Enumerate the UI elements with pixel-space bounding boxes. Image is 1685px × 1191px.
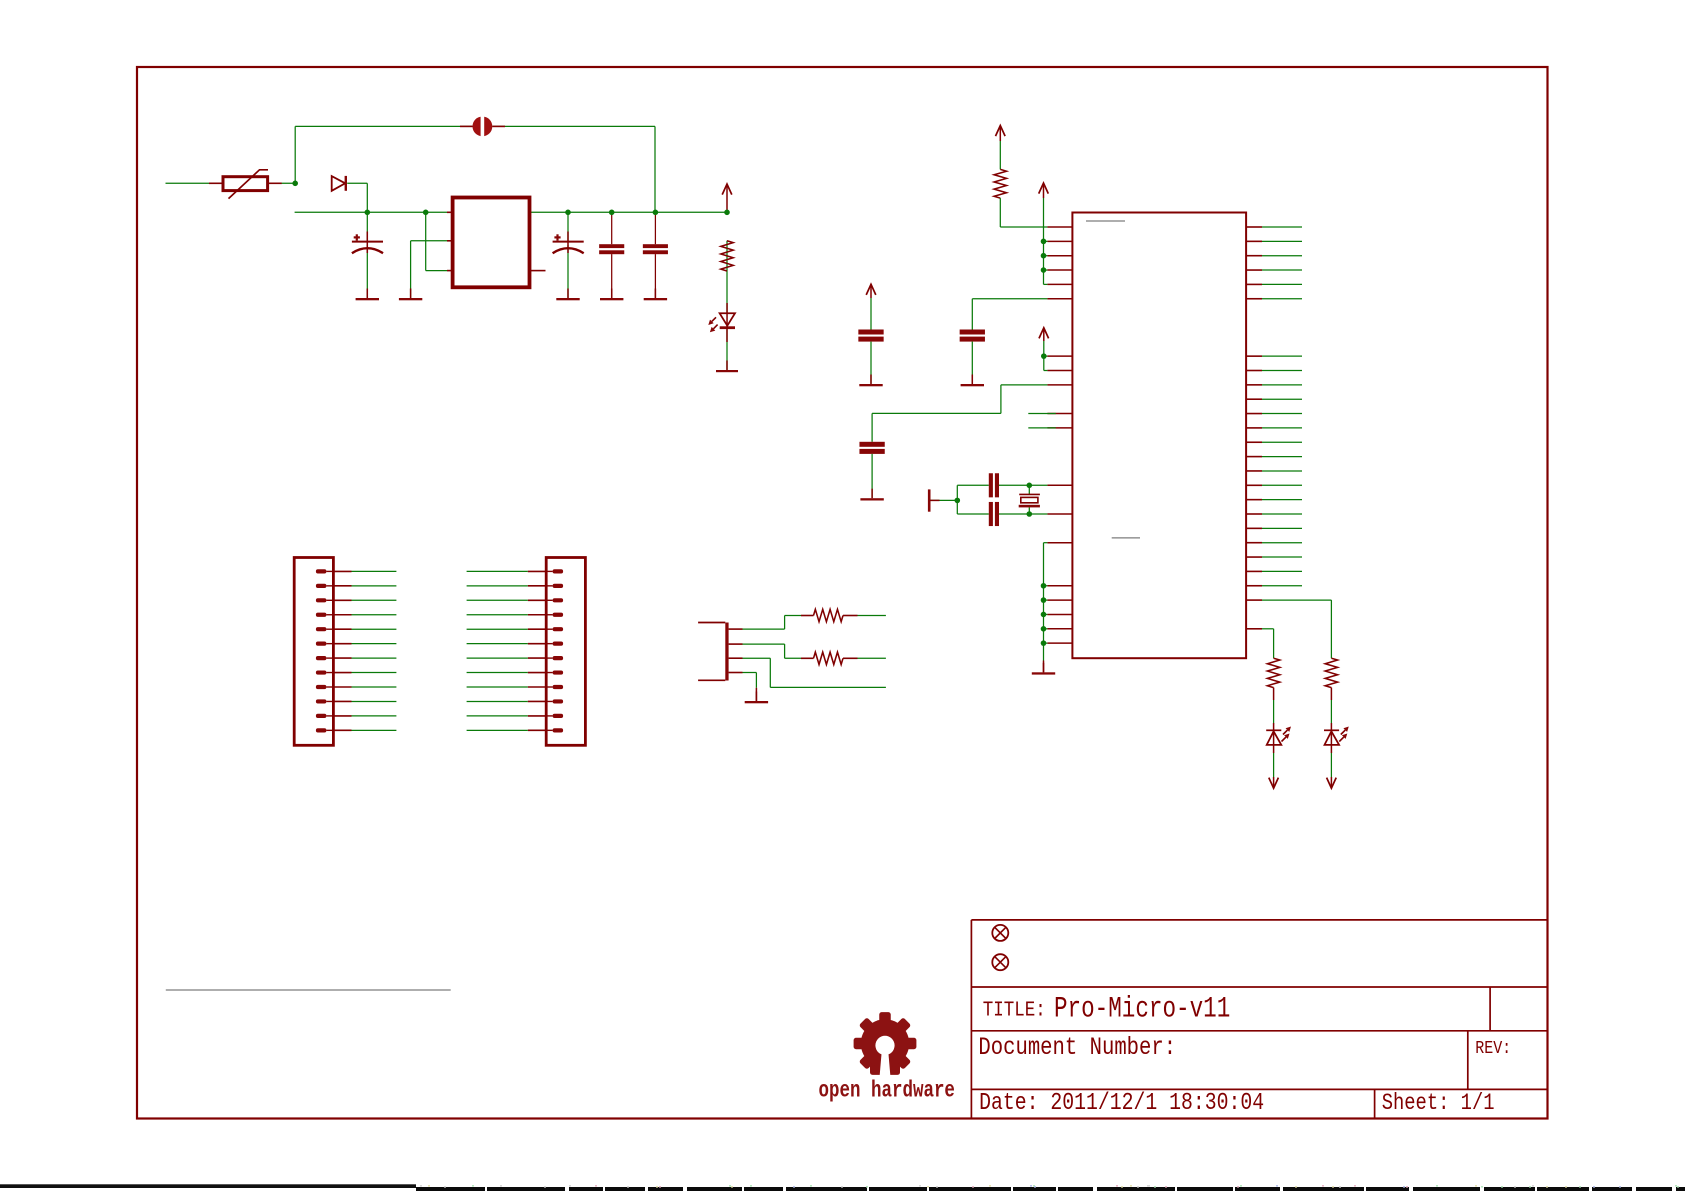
svg-text:TITLE:: TITLE: bbox=[983, 998, 1046, 1022]
svg-text:Document Number:: Document Number: bbox=[978, 1033, 1176, 1061]
svg-text:Date: 2011/12/1 18:30:04: Date: 2011/12/1 18:30:04 bbox=[979, 1089, 1264, 1116]
svg-text:Sheet: 1/1: Sheet: 1/1 bbox=[1382, 1091, 1495, 1116]
svg-text:Pro-Micro-v11: Pro-Micro-v11 bbox=[1054, 992, 1230, 1026]
svg-text:open hardware: open hardware bbox=[819, 1079, 955, 1105]
svg-text:REV:: REV: bbox=[1475, 1039, 1511, 1060]
